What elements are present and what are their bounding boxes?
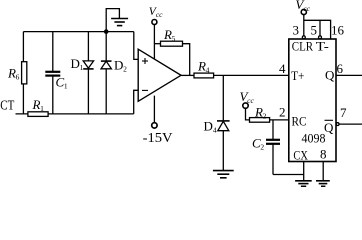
wire op-amp V- pin <box>153 96 155 124</box>
svg-text:5: 5 <box>311 23 318 38</box>
wire output to R4 <box>181 74 194 76</box>
svg-text:RC: RC <box>292 113 307 128</box>
svg-text:4098: 4098 <box>302 131 326 146</box>
wire pin3 riser <box>303 15 305 36</box>
wire IC ground pin 8 <box>322 162 324 181</box>
ground D4 <box>213 171 234 178</box>
wire IC ground pin CX <box>303 162 305 181</box>
svg-text:4: 4 <box>279 61 286 76</box>
svg-text:6: 6 <box>337 61 344 76</box>
terminal Vcc op-amp <box>152 20 157 25</box>
pin 5 circle <box>319 36 322 39</box>
wire minus-input riser <box>134 90 139 114</box>
ground IC left <box>295 181 312 187</box>
svg-text:16: 16 <box>331 23 345 38</box>
ground IC right <box>316 181 330 187</box>
diode D4 <box>217 121 230 170</box>
capacitor C2 <box>266 140 280 175</box>
resistor R5 <box>154 41 189 75</box>
svg-text:CLR: CLR <box>292 38 314 53</box>
resistor R1 <box>28 112 48 117</box>
resistor R2 <box>250 118 270 123</box>
op-amp U1 <box>138 49 181 101</box>
terminal -15V <box>152 123 157 128</box>
svg-text:T-: T- <box>316 38 329 53</box>
wire Q pin6 <box>336 74 362 76</box>
op-amp plus sign <box>142 58 148 90</box>
op-amp minus sign <box>142 89 148 91</box>
label Qbar <box>324 120 334 135</box>
wire bottom rail <box>16 113 134 115</box>
svg-text:7: 7 <box>340 105 347 120</box>
resistor R6 <box>22 32 27 114</box>
resistor R4 <box>194 73 214 78</box>
svg-text:2: 2 <box>279 105 286 120</box>
svg-text:CT: CT <box>0 99 14 114</box>
pin 7 circle <box>336 123 339 126</box>
terminal Vcc R2 <box>243 103 248 108</box>
wire ground stem top <box>106 9 119 32</box>
svg-text:3: 3 <box>293 23 300 38</box>
wire Vcc bus <box>304 20 331 39</box>
wire R4 to T+ pin4 <box>214 74 289 76</box>
wire Qbar pin7 <box>339 123 362 125</box>
capacitor C1 <box>45 32 60 114</box>
svg-text:CX: CX <box>293 148 308 163</box>
svg-text:Q: Q <box>325 68 335 83</box>
wire plus-input drop <box>134 32 138 60</box>
wire R2 to RC pin2 <box>270 119 289 121</box>
wire top rail <box>23 31 133 33</box>
wire C2 branch <box>272 120 274 139</box>
wire D4 branch <box>222 75 224 120</box>
IC U2 4098 box <box>289 39 336 162</box>
wire pin5 riser <box>319 20 321 36</box>
diode D1 <box>83 32 93 114</box>
svg-text:8: 8 <box>320 147 327 162</box>
diode D2 <box>101 32 112 114</box>
wire op-amp V+ pin <box>153 24 155 58</box>
ground top <box>111 19 128 26</box>
svg-text:T+: T+ <box>291 68 304 83</box>
svg-text:Q: Q <box>324 120 334 135</box>
pin 3 circle <box>302 36 305 39</box>
wire Vcc to R2 <box>246 108 250 120</box>
node junction dot <box>104 29 109 34</box>
svg-text:-15V: -15V <box>143 131 173 146</box>
wire C2 return <box>273 174 304 176</box>
terminal Vcc IC <box>301 9 306 14</box>
